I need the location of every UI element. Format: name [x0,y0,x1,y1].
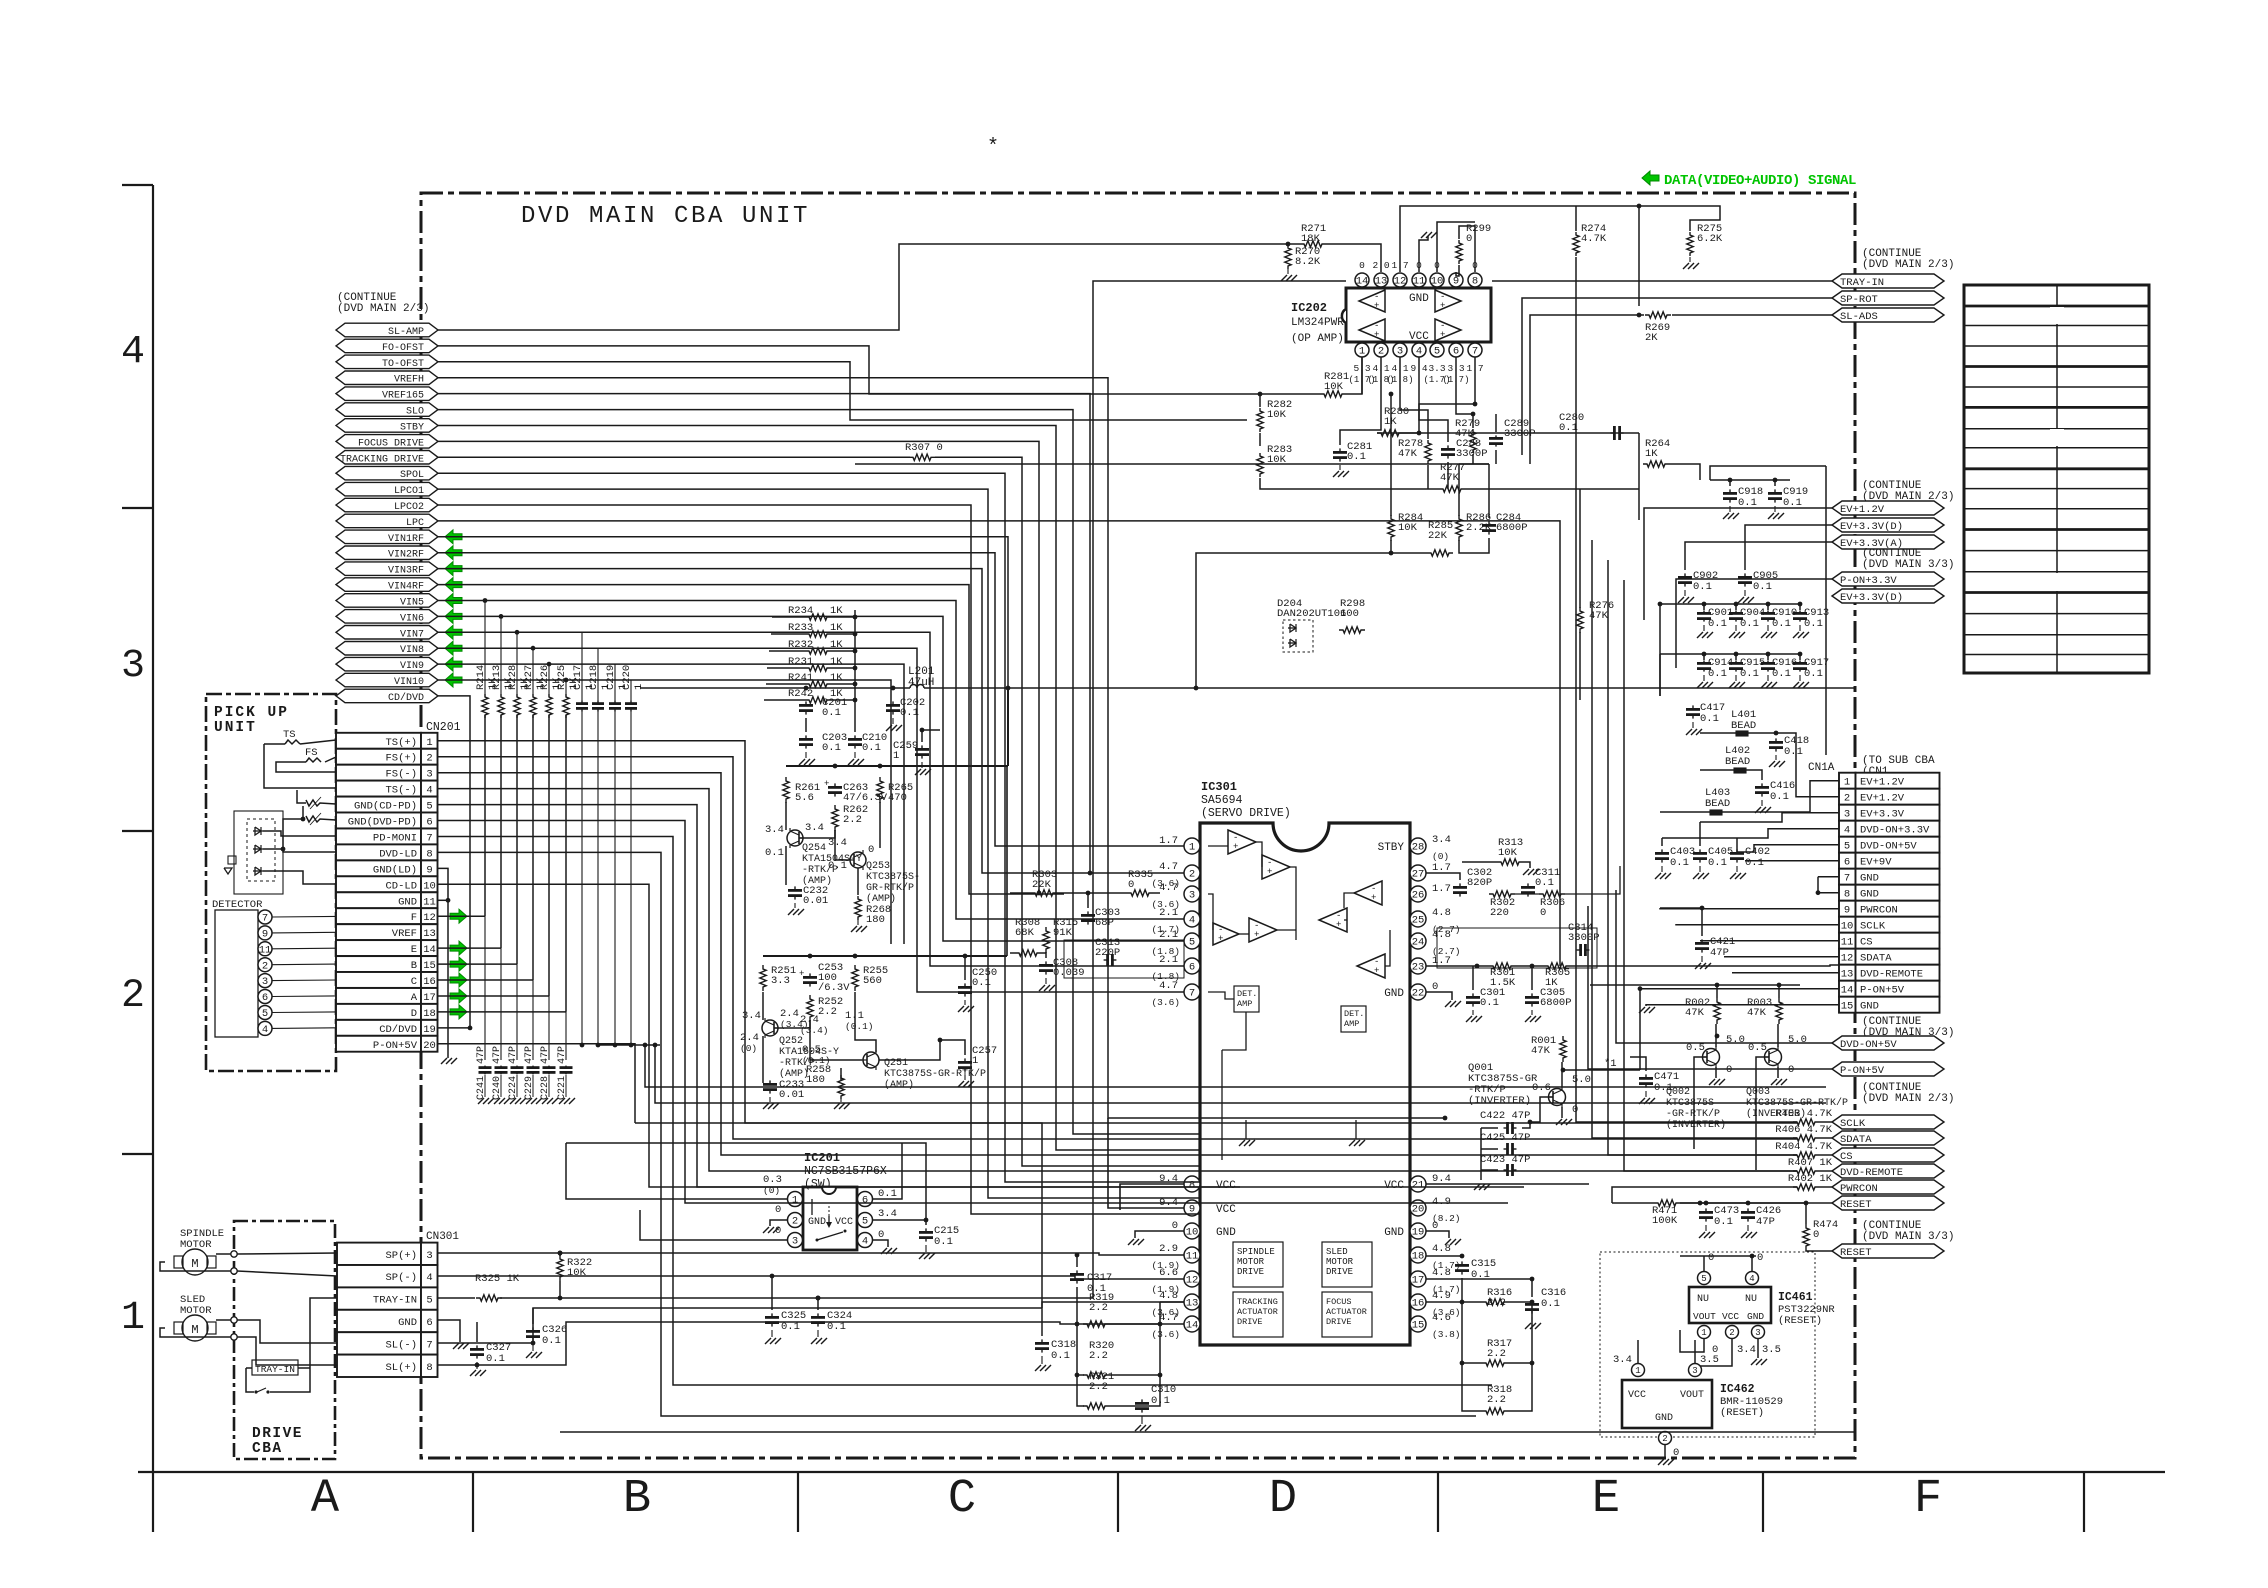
connector CN201 pin 14 E [336,940,421,956]
wire C918/C919 top rail [1710,479,1790,481]
capacitor C315 0.1 [1461,1261,1463,1265]
op-amp IC202 A triangle [1359,290,1385,312]
svg-text:SP-ROT: SP-ROT [1840,294,1878,306]
svg-text:5: 5 [1701,1274,1706,1284]
TRAY-IN switch box [252,1360,298,1375]
ground C259 [921,762,923,768]
capacitor C905 0.1 [1744,573,1746,577]
svg-text:16: 16 [423,976,436,988]
wire IC301 pin21 VCC [1426,1184,1612,1187]
svg-text:GND: GND [1384,988,1404,1000]
wire detector to CN201 [272,931,336,934]
capacitor C913 0.1 [1799,604,1801,610]
svg-text:0.1: 0.1 [1670,857,1689,869]
op-amp IC202 pin 2 [1374,343,1388,357]
svg-text:17: 17 [423,992,436,1004]
ground C202 [892,718,894,724]
wire CN1A pin8 [1818,892,1839,894]
svg-text:CS: CS [1860,937,1873,949]
svg-text:VIN6: VIN6 [400,613,424,624]
svg-text:180: 180 [806,1074,825,1086]
svg-text:4: 4 [121,330,145,375]
svg-text:FS: FS [305,747,318,759]
svg-text:TRAY-IN: TRAY-IN [1840,277,1884,289]
svg-text:0.1: 0.1 [1804,618,1823,630]
wire R264 [1669,464,1700,480]
ground Q001 [1556,1119,1562,1125]
svg-text:7: 7 [426,833,432,845]
svg-text:(DVD MAIN 2/3): (DVD MAIN 2/3) [337,303,429,315]
svg-text:0.1: 0.1 [822,707,841,719]
svg-text:0.1: 0.1 [1051,1350,1070,1362]
wire D204 R298 net [1298,652,1352,660]
svg-text:47P: 47P [476,1046,487,1064]
svg-text:0.1: 0.1 [822,742,841,754]
svg-text:1K: 1K [830,605,843,617]
wire RESET net [1680,1202,1832,1204]
op-amp IC202 C triangle [1435,290,1461,312]
ground C423 common [1474,1184,1480,1190]
svg-text:(0): (0) [1432,851,1449,862]
svg-text:SPOL: SPOL [400,470,424,481]
capacitor C324 0.1 [817,1313,819,1317]
flag SL-AMP [336,323,438,337]
wire detector to CN201 [272,995,336,998]
svg-text:DVD-ON+3.3V: DVD-ON+3.3V [1860,825,1930,837]
svg-text:R234: R234 [788,605,813,617]
svg-text:0.039: 0.039 [1053,967,1085,979]
ground C416 [1761,800,1763,806]
ground C305 [1531,1010,1533,1015]
ground C904 [1735,625,1737,631]
svg-text:47K: 47K [1747,1007,1767,1019]
svg-text:TRAY-IN: TRAY-IN [373,1295,417,1307]
svg-text:CBA: CBA [252,1441,283,1457]
svg-text:IC202: IC202 [1291,301,1327,315]
wire SP-ROT flag [1522,298,1832,455]
flag VIN7 [336,626,438,640]
svg-text:2.2: 2.2 [843,814,862,826]
wire pin25/24 [1426,918,1437,920]
svg-text:GND: GND [1860,1001,1879,1013]
svg-text:CN301: CN301 [426,1231,459,1243]
svg-text:LPC: LPC [406,518,424,529]
svg-text:P-ON+5V: P-ON+5V [373,1040,418,1052]
svg-text:1: 1 [426,737,432,749]
flag VIN6 [336,610,438,624]
flag LPCO1 [336,482,438,496]
table top right [1964,285,2149,673]
wire CN301 SL- net [438,1308,1043,1343]
servo-drive IC301 pin 6 [1184,958,1200,974]
svg-text:0.1: 0.1 [862,742,881,754]
svg-text:IC461: IC461 [1778,1291,1813,1304]
connector CN201 pin 8 DVD-LD [336,844,421,860]
ground C417 [1692,722,1694,728]
wire C257 [940,1040,965,1055]
wire IC202 pin1 down [1361,357,1363,394]
svg-text:GND: GND [1409,293,1429,305]
svg-text:VREFH: VREFH [394,375,424,386]
reset IC461 pin 2 [1726,1326,1739,1339]
svg-text:R242: R242 [788,688,813,700]
switch IC201 pin 5 [858,1213,873,1228]
svg-text:47K: 47K [1685,1007,1705,1019]
green arrow VIN1RF [445,530,462,544]
svg-text:2.2: 2.2 [1089,1381,1108,1393]
svg-text:5.0: 5.0 [1572,1074,1591,1086]
svg-text:11: 11 [423,896,436,908]
detector pin (5) [258,1006,272,1020]
svg-text:F: F [1914,1473,1942,1526]
svg-text:R406 4.7K: R406 4.7K [1775,1124,1832,1136]
svg-text:(DVD MAIN 2/3): (DVD MAIN 2/3) [1862,1093,1954,1105]
svg-text:(INVERTER): (INVERTER) [1666,1119,1726,1131]
wire IC301 pin3 [1063,894,1065,905]
svg-text:TO-OFST: TO-OFST [382,359,424,370]
wire IC301 pin10 GND [1135,1231,1184,1238]
svg-text:*1: *1 [1604,1058,1617,1070]
wire Q252 [762,992,764,1020]
svg-text:4.7: 4.7 [1159,1312,1178,1324]
wire CN201 pin 7 net [438,837,1493,1386]
detector pin (11) [258,942,272,956]
svg-text:Q252: Q252 [779,1036,803,1047]
transistor Q002 KTC3875S-GR-RTK/P (INVERTER) [1703,1049,1720,1066]
svg-text:B: B [623,1473,651,1526]
wire detector to CN201 [272,915,336,918]
wire IC202 pin12 top to right [1400,206,1639,306]
wire VIN2RF net [438,553,1184,846]
wire rail v1 [1659,604,1661,696]
green arrow CN201 pin 14 [450,941,467,955]
ground C426 [1747,1225,1749,1231]
svg-text:STBY: STBY [400,423,424,434]
op-amp triangle IC301 f [1319,908,1347,932]
svg-text:0.1: 0.1 [1804,668,1823,680]
transistor Q252 KTA1504S-Y-RTK/P [762,1020,778,1036]
servo-drive IC301 pin 16 [1410,1294,1426,1310]
wire detector to CN201 [272,979,336,982]
wire bus y520 R274 [1176,520,1576,688]
wire CN301 GND net [438,1320,461,1342]
op-amp triangle IC301 b [1262,855,1290,879]
svg-text:1: 1 [1844,777,1850,789]
wire CN201 pin 3 net [438,773,1798,1155]
svg-text:13: 13 [423,928,436,940]
svg-text:0.1: 0.1 [1347,451,1366,463]
reset IC462 body [1622,1380,1712,1428]
ground IC201 pin4 [873,1240,888,1247]
svg-text:(DVD MAIN 3/3): (DVD MAIN 3/3) [1862,1231,1954,1243]
wire Q002 [1715,1024,1717,1047]
svg-text:0.1: 0.1 [765,847,784,859]
svg-text:E: E [411,944,417,956]
svg-text:-: - [1440,321,1445,331]
wire L402 [1700,769,1734,771]
svg-text:2.1: 2.1 [1159,954,1178,966]
wire R276 [1579,489,1581,608]
svg-text:R231: R231 [788,656,813,668]
svg-text:IC462: IC462 [1720,1383,1755,1396]
wire VIN9 net [438,664,904,944]
servo-drive IC301 pin 18 [1410,1247,1426,1263]
switch IC201 pin 3 [788,1233,803,1248]
svg-text:M: M [191,1323,198,1337]
wire C314 box [1437,928,1597,968]
wire long y1045 [598,1044,660,1046]
wire spindle motor to CN301 [216,1253,231,1255]
svg-text:Q003: Q003 [1746,1087,1770,1098]
svg-text:GND(CD-PD): GND(CD-PD) [354,801,417,813]
svg-text:VIN2RF: VIN2RF [388,550,424,561]
ground R275 [1689,257,1691,262]
wire R280 net [1377,357,1475,433]
wire LPCO1 net [438,489,1200,1198]
tray switch [257,1388,266,1392]
ground inner right [1349,1140,1355,1146]
svg-text:4.7K: 4.7K [1581,233,1607,245]
svg-text:1K: 1K [1645,448,1658,460]
svg-text:47K: 47K [1455,428,1475,440]
svg-text:28: 28 [1412,842,1425,854]
svg-text:4: 4 [1189,915,1195,927]
wire CN1A pin14 [1640,989,1839,1070]
svg-text:0: 0 [1726,1064,1732,1076]
ground C326 [532,1344,534,1351]
ground C308 [1045,978,1047,984]
wire pin23 net [1426,965,1489,967]
wire CN301 SP+ net [438,1253,1185,1255]
svg-text:DRIVE: DRIVE [1237,1317,1263,1327]
ground C471 [1645,1091,1647,1097]
block SLED MOTOR DRIVE [1322,1242,1372,1287]
ground IC462 pin2 [1658,1459,1664,1465]
servo-drive IC301 pin 26 [1410,886,1426,902]
svg-text:(0.1): (0.1) [845,1021,874,1032]
servo-drive IC301 pin 8 [1184,1176,1200,1192]
switch IC201 pin 1 [788,1192,803,1207]
svg-text:1K: 1K [830,639,843,651]
op-amp IC202 pin 4 [1412,343,1426,357]
servo-drive IC301 pin 11 [1184,1247,1200,1263]
svg-text:11: 11 [1186,1251,1199,1263]
svg-text:8: 8 [1844,889,1850,901]
servo-drive IC301 pin 24 [1410,933,1426,949]
svg-text:7: 7 [262,913,268,925]
ground C915 [1735,675,1737,681]
svg-text:27: 27 [1412,869,1425,881]
wire SCLK net [1560,966,1797,1122]
svg-text:R232: R232 [788,639,813,651]
svg-text:0.1: 0.1 [486,1353,505,1365]
wire R234 [772,616,805,618]
svg-text:4.8: 4.8 [1432,1267,1451,1279]
svg-text:2.2: 2.2 [1487,1394,1506,1406]
svg-text:4.8: 4.8 [1432,929,1451,941]
svg-text:4: 4 [426,1272,432,1284]
svg-text:0: 0 [1673,1447,1679,1459]
wire bundle C217 [581,632,583,701]
svg-text:EV+3.3V(D): EV+3.3V(D) [1840,592,1903,604]
svg-text:0.1: 0.1 [1745,857,1764,869]
svg-text:220: 220 [1490,907,1509,919]
svg-text:3: 3 [426,1250,432,1262]
svg-text:3: 3 [262,976,268,988]
op-amp IC202 pin 11 [1412,273,1426,287]
wire C250 [964,956,966,980]
wire bundle C220 [630,680,632,701]
wire P-ON+5V flag [1588,906,1832,1069]
svg-text:-: - [1254,921,1259,931]
svg-text:1: 1 [1359,346,1365,358]
connector CN1A pin 8 GND [1839,885,1856,901]
wire CN1A pin10 [1676,923,1839,926]
svg-text:4: 4 [1749,1274,1754,1284]
svg-text:VCC: VCC [1628,1390,1646,1401]
ground C473 [1705,1225,1707,1231]
svg-text:C422 47P: C422 47P [1480,1110,1530,1122]
svg-text:C: C [411,976,417,988]
svg-text:SPINDLE: SPINDLE [1237,1247,1275,1257]
svg-text:0.1: 0.1 [781,1321,800,1333]
servo-drive IC301 pin 14 [1184,1316,1200,1332]
svg-text:1.7: 1.7 [1159,835,1178,847]
ground Q003 [1771,1079,1777,1085]
svg-text:3.4: 3.4 [828,837,847,849]
svg-text:12: 12 [1186,1275,1199,1287]
svg-text:0.1: 0.1 [1772,668,1791,680]
svg-text:0: 0 [868,844,874,856]
svg-text:DVD-LD: DVD-LD [379,848,417,860]
svg-text:6: 6 [426,817,432,829]
svg-text:2.9: 2.9 [1159,1243,1178,1255]
wire R320 [1077,1324,1084,1375]
wire IC301 pin15 net [1426,1324,1448,1363]
svg-text:0: 0 [1359,260,1365,271]
capacitor C418 0.1 [1775,738,1777,742]
svg-text:MOTOR: MOTOR [1326,1257,1354,1267]
op-amp IC202 pin 6 [1449,343,1463,357]
op-amp IC202 pin 13 [1374,273,1388,287]
svg-text:SL(-): SL(-) [385,1339,417,1351]
svg-text:0.1: 0.1 [827,1321,846,1333]
op-amp IC202 pin 12 [1393,273,1407,287]
svg-text:3: 3 [1397,346,1403,358]
flag P-ON+3.3V [1832,572,1944,586]
svg-text:13: 13 [1186,1298,1199,1310]
svg-text:+: + [1233,842,1238,852]
svg-text:GND: GND [1384,1227,1404,1239]
flag VIN3RF [336,562,438,576]
wire R278 [1400,357,1428,439]
svg-text:24: 24 [1412,937,1425,949]
flag EV+3.3V(A) [1832,535,1944,549]
detector block [215,910,258,1037]
svg-text:13: 13 [1375,276,1388,288]
svg-text:EV+1.2V: EV+1.2V [1860,793,1905,805]
svg-text:+: + [824,779,829,789]
svg-text:3.4: 3.4 [1613,1354,1632,1366]
flag SDATA bottom right [1832,1131,1944,1145]
wire amp rail1 y766 [786,765,1008,767]
flag VIN5 [336,594,438,608]
svg-text:SP(-): SP(-) [385,1272,417,1284]
wire R282 net [438,362,1247,420]
svg-text:0.1: 0.1 [1708,618,1727,630]
wire CN1A pin6 [1740,861,1839,866]
wire C281 top [1340,357,1381,445]
svg-text:0.5: 0.5 [1686,1042,1705,1054]
svg-text:0.1: 0.1 [1700,713,1719,725]
wire bus x655 [655,1045,1826,1103]
connector CN201 pin 17 A [336,988,421,1004]
svg-text:(SERVO DRIVE): (SERVO DRIVE) [1201,807,1291,820]
capacitor C919 0.1 [1774,489,1776,493]
sled motor [182,1315,208,1341]
svg-text:EV+1.2V: EV+1.2V [1840,504,1885,516]
wire R241 [766,683,805,685]
wire R474 [1805,1203,1807,1224]
svg-text:/6.3V: /6.3V [818,982,850,994]
wire rstack vertical bus [854,610,856,700]
svg-text:4.8: 4.8 [1159,1290,1178,1302]
svg-text:9: 9 [426,864,432,876]
svg-text:NU: NU [1745,1294,1757,1305]
svg-text:12: 12 [423,912,436,924]
svg-text:TRACKING DRIVE: TRACKING DRIVE [340,454,424,465]
reset IC462 pin 3 [1689,1364,1702,1377]
svg-text:4.7: 4.7 [1159,882,1178,894]
svg-text:6: 6 [862,1195,868,1207]
svg-text:1.7: 1.7 [1432,862,1451,874]
wire SL-ADS flag [1672,314,1832,316]
wire CN1A pin13 [1732,972,1839,974]
flag DVD-REMOTE bottom right [1832,1164,1944,1178]
ground R270 [1287,269,1289,274]
svg-text:9: 9 [1453,276,1459,288]
wire Q254 [785,802,787,830]
wire IC301 pin17 net [1426,1278,1532,1280]
svg-text:KTC3875S-: KTC3875S- [866,872,920,883]
wire bundle C218 [597,648,599,701]
connector CN201 pin 5 GND(CD-PD) [336,797,421,813]
svg-text:PD-MONI: PD-MONI [373,833,417,845]
ground C203 [805,752,807,758]
svg-text:26: 26 [1412,890,1425,902]
svg-text:DRIVE: DRIVE [1237,1267,1264,1277]
svg-text:(3.4): (3.4) [800,1025,829,1036]
svg-text:5.0: 5.0 [1788,1034,1807,1046]
svg-text:SCLK: SCLK [1840,1118,1866,1130]
wire bundle C219 [614,664,616,701]
reset IC462 pin 1 [1632,1364,1645,1377]
svg-text:RESET: RESET [1840,1199,1872,1211]
wire R283 net [1260,478,1381,489]
photo sensor R row6 [306,816,336,822]
PICK UP UNIT boundary box [206,694,336,1071]
servo-drive IC301 pin 28 [1410,838,1426,854]
laser diode symbol [228,856,236,864]
wire mid long net y464 [855,463,1381,465]
capacitor C318 0.1 [1041,1339,1043,1343]
svg-text:13: 13 [1841,969,1854,981]
wire long y1416 [661,1411,1476,1416]
svg-text:1: 1 [972,1055,978,1067]
svg-text:R407 1K: R407 1K [1788,1157,1833,1169]
flag SLO [336,403,438,417]
wire VIN6 net [438,616,1184,941]
